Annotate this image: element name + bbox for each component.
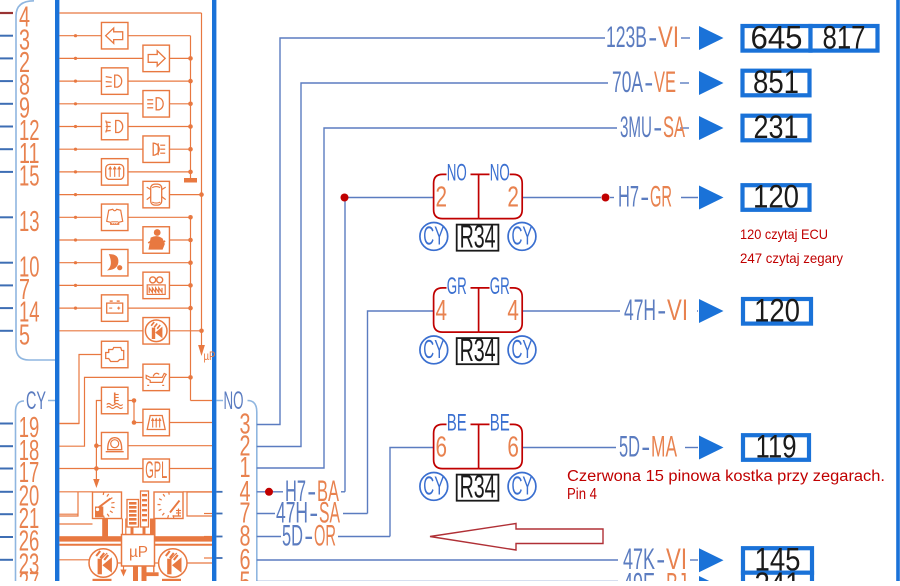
bus A junction y=103.8 (188, 102, 193, 107)
bus band thin left (59, 544, 121, 546)
blue ticks right border (216, 491, 222, 493)
wire NO pin 7 to label (257, 513, 275, 515)
bus A lower segment (190, 217, 192, 400)
wire row 5 brake-circle to bus B (59, 330, 143, 332)
svg-text:R34: R34 (460, 469, 496, 505)
wire row 26 step (59, 523, 92, 525)
fuel gauge (93, 492, 122, 519)
instrument cluster left border (55, 0, 59, 581)
wire oil icon to CY pin 18 (59, 377, 143, 446)
wire row y=308.1 right segment to bus A (128, 307, 191, 309)
step outline row 20/21 left (59, 492, 78, 516)
fuel gauge stem (102, 519, 108, 537)
connector CY circle left (420, 223, 448, 251)
svg-text:120: 120 (754, 293, 800, 329)
value box 851 (743, 71, 810, 96)
arrow down lower-left (93, 479, 99, 488)
connector NO bracket (248, 401, 257, 582)
connector R34 BE-BE bracket left (434, 424, 479, 468)
icon turn-left arrow (101, 22, 128, 49)
icon airbag (101, 249, 128, 276)
svg-text:SA: SA (663, 111, 685, 144)
GPL indicator box (143, 459, 170, 482)
svg-text:6: 6 (507, 432, 519, 464)
svg-text:-: - (653, 111, 662, 144)
bus A junction y=81.1 (188, 79, 193, 84)
connector R34 NO-NO bracket right (479, 174, 523, 218)
wire junction x=75 y=149.2 (74, 148, 77, 151)
svg-text:GR: GR (650, 181, 672, 214)
icon bell alarm (101, 432, 128, 459)
wire H7-BA riser (344, 198, 346, 492)
partial icons bottom edge (93, 579, 112, 581)
svg-text:R34: R34 (460, 332, 496, 368)
icon coolant temperature (101, 387, 128, 414)
svg-text:OR: OR (314, 520, 336, 553)
svg-text:231: 231 (754, 109, 799, 145)
wire junction x=75 y=262.7 (74, 261, 77, 264)
icon handbrake jacket (101, 204, 128, 231)
svg-text:13: 13 (19, 206, 40, 238)
pin tick 5 connector A (0, 330, 13, 332)
fuel box to uP connector lines (121, 519, 123, 535)
wire row y=81.1 left segment (59, 80, 101, 82)
arrow 5D (699, 436, 724, 460)
svg-text:123B: 123B (606, 21, 647, 54)
pin tick 9 connector A (0, 103, 13, 105)
value box 817 (811, 26, 878, 51)
bus band left to uP (59, 536, 121, 541)
svg-text:241: 241 (755, 566, 801, 581)
bus A exit to NO label row (191, 400, 213, 402)
relay box R34 (457, 225, 499, 251)
value box 241 partial (743, 573, 812, 586)
wire row y=217.3 right segment to bus A (128, 216, 191, 218)
wire row y=103.8 left segment (59, 103, 143, 105)
svg-text:3MU: 3MU (620, 111, 652, 144)
pin tick 19 connector CY (0, 423, 13, 425)
wire row y=285.4 left segment (59, 284, 143, 286)
connector CY circle left (420, 336, 448, 364)
svg-text:H7: H7 (618, 181, 639, 214)
value box 120 (743, 185, 810, 210)
connector CY label dash (48, 400, 55, 402)
wire NO pin 8 to label (257, 536, 281, 538)
icon door open (143, 181, 170, 208)
relay box R34 (457, 475, 499, 501)
wire junction x=75 y=126.5 (74, 125, 77, 128)
bar indicator 2 (141, 491, 149, 527)
pin tick 2 connector A (0, 57, 13, 59)
wire row 23 left (59, 559, 89, 561)
svg-text:µP: µP (204, 349, 216, 363)
svg-text:NO: NO (447, 160, 467, 187)
svg-text:70A: 70A (612, 66, 643, 99)
svg-text:MA: MA (651, 431, 677, 464)
red arrow pointing left (430, 524, 603, 551)
bus A junction y=308.1 (188, 306, 193, 311)
wire coolant icon to arrow down (96, 401, 101, 480)
svg-text:817: 817 (823, 20, 866, 56)
wire R34 to H7-GR label (522, 197, 601, 199)
pin tick 27 connector CY (0, 581, 13, 583)
bus A junction y=171.9 (188, 170, 193, 175)
wire junction x=75 y=285.4 (74, 284, 77, 287)
svg-text:BE: BE (447, 410, 467, 437)
svg-text:-: - (304, 520, 313, 553)
connector CY bracket (16, 401, 25, 581)
page border right (896, 0, 900, 581)
wire row y=171.9 left segment (59, 171, 101, 173)
ground symbol below bus A (184, 178, 197, 183)
wire row y=35.7 left segment (59, 35, 101, 37)
connector CY circle left (420, 473, 448, 501)
wire row y=149.2 left segment (59, 148, 143, 150)
icon windshield defrost (143, 409, 170, 436)
wire junction door row (74, 193, 77, 196)
wire 3MU-SA (257, 128, 617, 468)
svg-text:4: 4 (436, 295, 448, 327)
icon oil pressure (143, 364, 170, 391)
pin tick 14 connector A (0, 307, 13, 309)
pin tick 17 connector CY (0, 468, 13, 470)
svg-text:120: 120 (753, 179, 799, 215)
junction dots lower-left vertical (94, 443, 99, 448)
svg-text:2: 2 (436, 182, 448, 214)
wire row y=171.9 right segment to bus A (128, 171, 191, 173)
wire label H7-BA to riser (341, 491, 345, 493)
pin tick 12 connector A (0, 126, 13, 128)
bus A junction y=126.5 (188, 124, 193, 129)
value box 120 b (743, 299, 811, 324)
wire row y=308.1 left segment (59, 307, 101, 309)
wire door row (59, 194, 143, 196)
svg-text:247 czytaj zegary: 247 czytaj zegary (740, 250, 843, 266)
wire engine row left segment (59, 423, 79, 425)
uP down arrow (123, 567, 125, 570)
instrument cluster right border (212, 0, 216, 581)
bus A junction y=285.4 (188, 283, 193, 288)
svg-text:6: 6 (436, 432, 448, 464)
svg-text:-: - (640, 181, 649, 214)
svg-text:120 czytaj ECU: 120 czytaj ECU (740, 226, 828, 242)
arrow 47H (699, 299, 724, 323)
svg-text:5: 5 (240, 567, 251, 581)
icon brake warning circle (143, 318, 170, 345)
bus band uP to right (155, 536, 213, 541)
pin tick 10 connector A (0, 262, 13, 264)
svg-text:CY: CY (512, 334, 533, 364)
node NO pin 4 (red) (265, 488, 273, 496)
wire junction x=75 y=58.4 (74, 57, 77, 60)
wire engine icon to CY pin 19 (59, 355, 101, 424)
wire R34 to 47H-VI label (522, 310, 620, 312)
svg-text:-: - (657, 294, 666, 327)
right stub rows bottom (204, 513, 212, 515)
temp gauge (154, 492, 183, 519)
icon low beam (101, 68, 128, 95)
uP output stems below (133, 566, 138, 581)
pin tick 20 connector CY (0, 491, 13, 493)
wire windshield icon to NO pin 3 (169, 422, 212, 424)
pin tick row 4 (dark red) (0, 12, 13, 14)
connector R34 GR-GR bracket right (479, 288, 523, 332)
wire oil icon to bus A (169, 376, 190, 378)
svg-text:CY: CY (423, 221, 444, 251)
wire CY pin 17 row (59, 468, 143, 470)
connector R34 BE-BE bracket right (479, 424, 523, 468)
icon heated rear window (101, 159, 128, 186)
wire GPL box to NO pin 1 (169, 468, 212, 470)
svg-text:GR: GR (447, 273, 467, 300)
svg-text:Pin 4: Pin 4 (567, 486, 597, 503)
svg-text:VI: VI (667, 294, 688, 327)
wire row 4 to bus B (59, 12, 201, 14)
wire row y=262.7 right segment to bus A (128, 262, 191, 264)
svg-text:BJ: BJ (666, 568, 687, 581)
connector R34 NO-NO center line (478, 174, 480, 218)
bus A upper segment (190, 36, 192, 178)
connector R34 GR-GR center line (478, 288, 480, 332)
arrow H7 (699, 186, 724, 210)
bus A junction y=217.3 (188, 215, 193, 220)
wire H7 junction to R34 (345, 197, 434, 199)
value box 119 (743, 435, 809, 460)
svg-text:119: 119 (756, 429, 797, 465)
wire row 20 left (59, 491, 92, 493)
svg-text:-: - (656, 568, 665, 581)
pin tick 15 connector A (0, 171, 13, 173)
wire 47H riser (368, 311, 434, 514)
value box 645 (743, 26, 811, 51)
node junction H7-GR (red) (602, 194, 610, 202)
wire coolant right to windshield icon (128, 401, 143, 423)
pin tick 3 connector A (0, 35, 13, 37)
wire row y=240.0 right segment to bus A (169, 239, 190, 241)
icon rear fog lamp (143, 136, 170, 163)
wire row 21 left (59, 513, 78, 515)
arrow 49E partial (699, 576, 724, 586)
svg-text:Czerwona 15 pinowa kostka przy: Czerwona 15 pinowa kostka przy zegarach. (567, 468, 885, 485)
arrow 47K (699, 548, 724, 572)
icon seat belt (143, 227, 170, 254)
microprocessor box uP (122, 535, 155, 567)
wire junction x=75 y=103.8 (74, 102, 77, 105)
wire bell icon left stub (96, 445, 101, 447)
svg-text:µP: µP (129, 544, 148, 561)
svg-text:CY: CY (26, 387, 46, 415)
wire row y=58.4 right segment to bus A (169, 57, 190, 59)
svg-text:645: 645 (751, 20, 803, 56)
pin tick 13 connector A (0, 216, 13, 218)
bus A junction y=240.0 (188, 238, 193, 243)
pin tick 21 connector CY (0, 513, 13, 515)
connector R34 BE-BE center line (478, 424, 480, 468)
wire row y=126.5 right segment to bus A (128, 126, 191, 128)
bar stems (131, 527, 134, 535)
wire NO pin 4 to label (257, 491, 283, 493)
pin tick 8 connector A (0, 80, 13, 82)
wires horn to uP (117, 562, 121, 564)
pin tick 23 connector CY (0, 559, 13, 561)
svg-text:5: 5 (19, 319, 30, 351)
wire junction x=75 y=217.3 (74, 216, 77, 219)
svg-text:4: 4 (507, 295, 519, 327)
right step outline (187, 492, 212, 516)
svg-text:49E: 49E (623, 568, 655, 581)
svg-text:CY: CY (423, 334, 444, 364)
wire junction x=75 y=308.1 (74, 307, 77, 310)
bus A junction y=58.4 (188, 56, 193, 61)
wire row y=81.1 right segment to bus A (128, 80, 191, 82)
connector NO label dash (216, 400, 223, 402)
svg-text:5D: 5D (619, 431, 640, 464)
wire row y=262.7 left segment (59, 262, 101, 264)
wire 70A-VE (257, 83, 608, 447)
pin tick 11 connector A (0, 148, 13, 150)
temp gauge stem (150, 519, 156, 537)
pin tick 18 connector CY (0, 445, 13, 447)
wire NO pin 6 to 47K-VI (257, 559, 618, 561)
connector CY circle right (508, 473, 536, 501)
bar indicator 1 (127, 500, 139, 528)
icon turn-right arrow (143, 45, 170, 72)
wire row 4 NO right stub (183, 491, 212, 493)
arrow 3MU (699, 116, 724, 140)
wire junction x=75 y=81.1 (74, 80, 77, 83)
wire row y=149.2 right segment to bus A (169, 148, 190, 150)
svg-text:47H: 47H (624, 294, 656, 327)
pin tick 26 connector CY (0, 536, 13, 538)
icon high beam (143, 91, 170, 118)
svg-text:2: 2 (507, 182, 519, 214)
ground bar right of uP (153, 566, 155, 572)
svg-text:5D: 5D (282, 520, 303, 553)
svg-text:VI: VI (658, 21, 679, 54)
relay box R34 (457, 338, 499, 364)
svg-text:CY: CY (512, 471, 533, 501)
svg-text:15: 15 (19, 161, 40, 193)
svg-text:CY: CY (512, 221, 533, 251)
value box 145 (743, 548, 812, 573)
bus band thin right (155, 544, 213, 546)
junction dot coolant-windshield (132, 398, 137, 403)
horn icon left (89, 549, 117, 577)
wire row y=126.5 left segment (59, 126, 101, 128)
wire 5D riser (390, 448, 434, 537)
connector R34 NO-NO bracket left (434, 174, 479, 218)
wire junction x=75 y=35.7 (74, 34, 77, 37)
svg-text:-: - (648, 21, 657, 54)
icon battery (101, 295, 128, 322)
bus A junction y=149.2 (188, 147, 193, 152)
horn icon right (159, 549, 187, 577)
icon glow plug (143, 272, 170, 299)
connector CY circle right (508, 223, 536, 251)
bus A junction y=262.7 (188, 260, 193, 265)
svg-text:GPL: GPL (145, 457, 167, 484)
bus B junction row 5 (199, 329, 204, 334)
wire junction x=75 y=240.0 (74, 238, 77, 241)
svg-text:27: 27 (19, 567, 40, 581)
icon engine check (101, 341, 128, 368)
svg-text:R34: R34 (460, 219, 496, 255)
wire row y=217.3 left segment (59, 216, 101, 218)
wire NO pin 5 partial (257, 581, 618, 583)
wire bell icon to NO pin 2 (128, 445, 212, 447)
connector bracket A (left instrument connector) (16, 1, 55, 360)
wire row y=285.4 right segment to bus A (169, 284, 190, 286)
microprocessor arrow (bus B) (198, 345, 205, 356)
bus A junction oil row (188, 375, 193, 380)
svg-text:851: 851 (753, 64, 799, 100)
connector R34 GR-GR bracket left (434, 288, 479, 332)
bus B junction door row (199, 192, 204, 197)
wire row y=103.8 right segment to bus A (169, 103, 190, 105)
svg-text:CY: CY (423, 471, 444, 501)
icon front fog lamp (101, 113, 128, 140)
arrow 123B (699, 26, 724, 50)
svg-text:-: - (641, 431, 650, 464)
arrow 70A (699, 71, 724, 95)
svg-text:-: - (644, 66, 653, 99)
wire R34 to 5D-MA label (522, 447, 616, 449)
wire 123B-VI (257, 38, 605, 425)
wire row y=58.4 left segment (59, 57, 143, 59)
svg-text:VE: VE (654, 66, 676, 99)
node junction H7 (red) (341, 194, 349, 202)
value box 231 (743, 116, 810, 141)
wire right horn to border (187, 562, 212, 564)
pin tick 7 connector A (0, 284, 13, 286)
connector CY circle right (508, 336, 536, 364)
wire row y=35.7 right segment to bus A (128, 35, 191, 37)
wire junction x=75 y=171.9 (74, 170, 77, 173)
wire row y=240.0 left segment (59, 239, 143, 241)
